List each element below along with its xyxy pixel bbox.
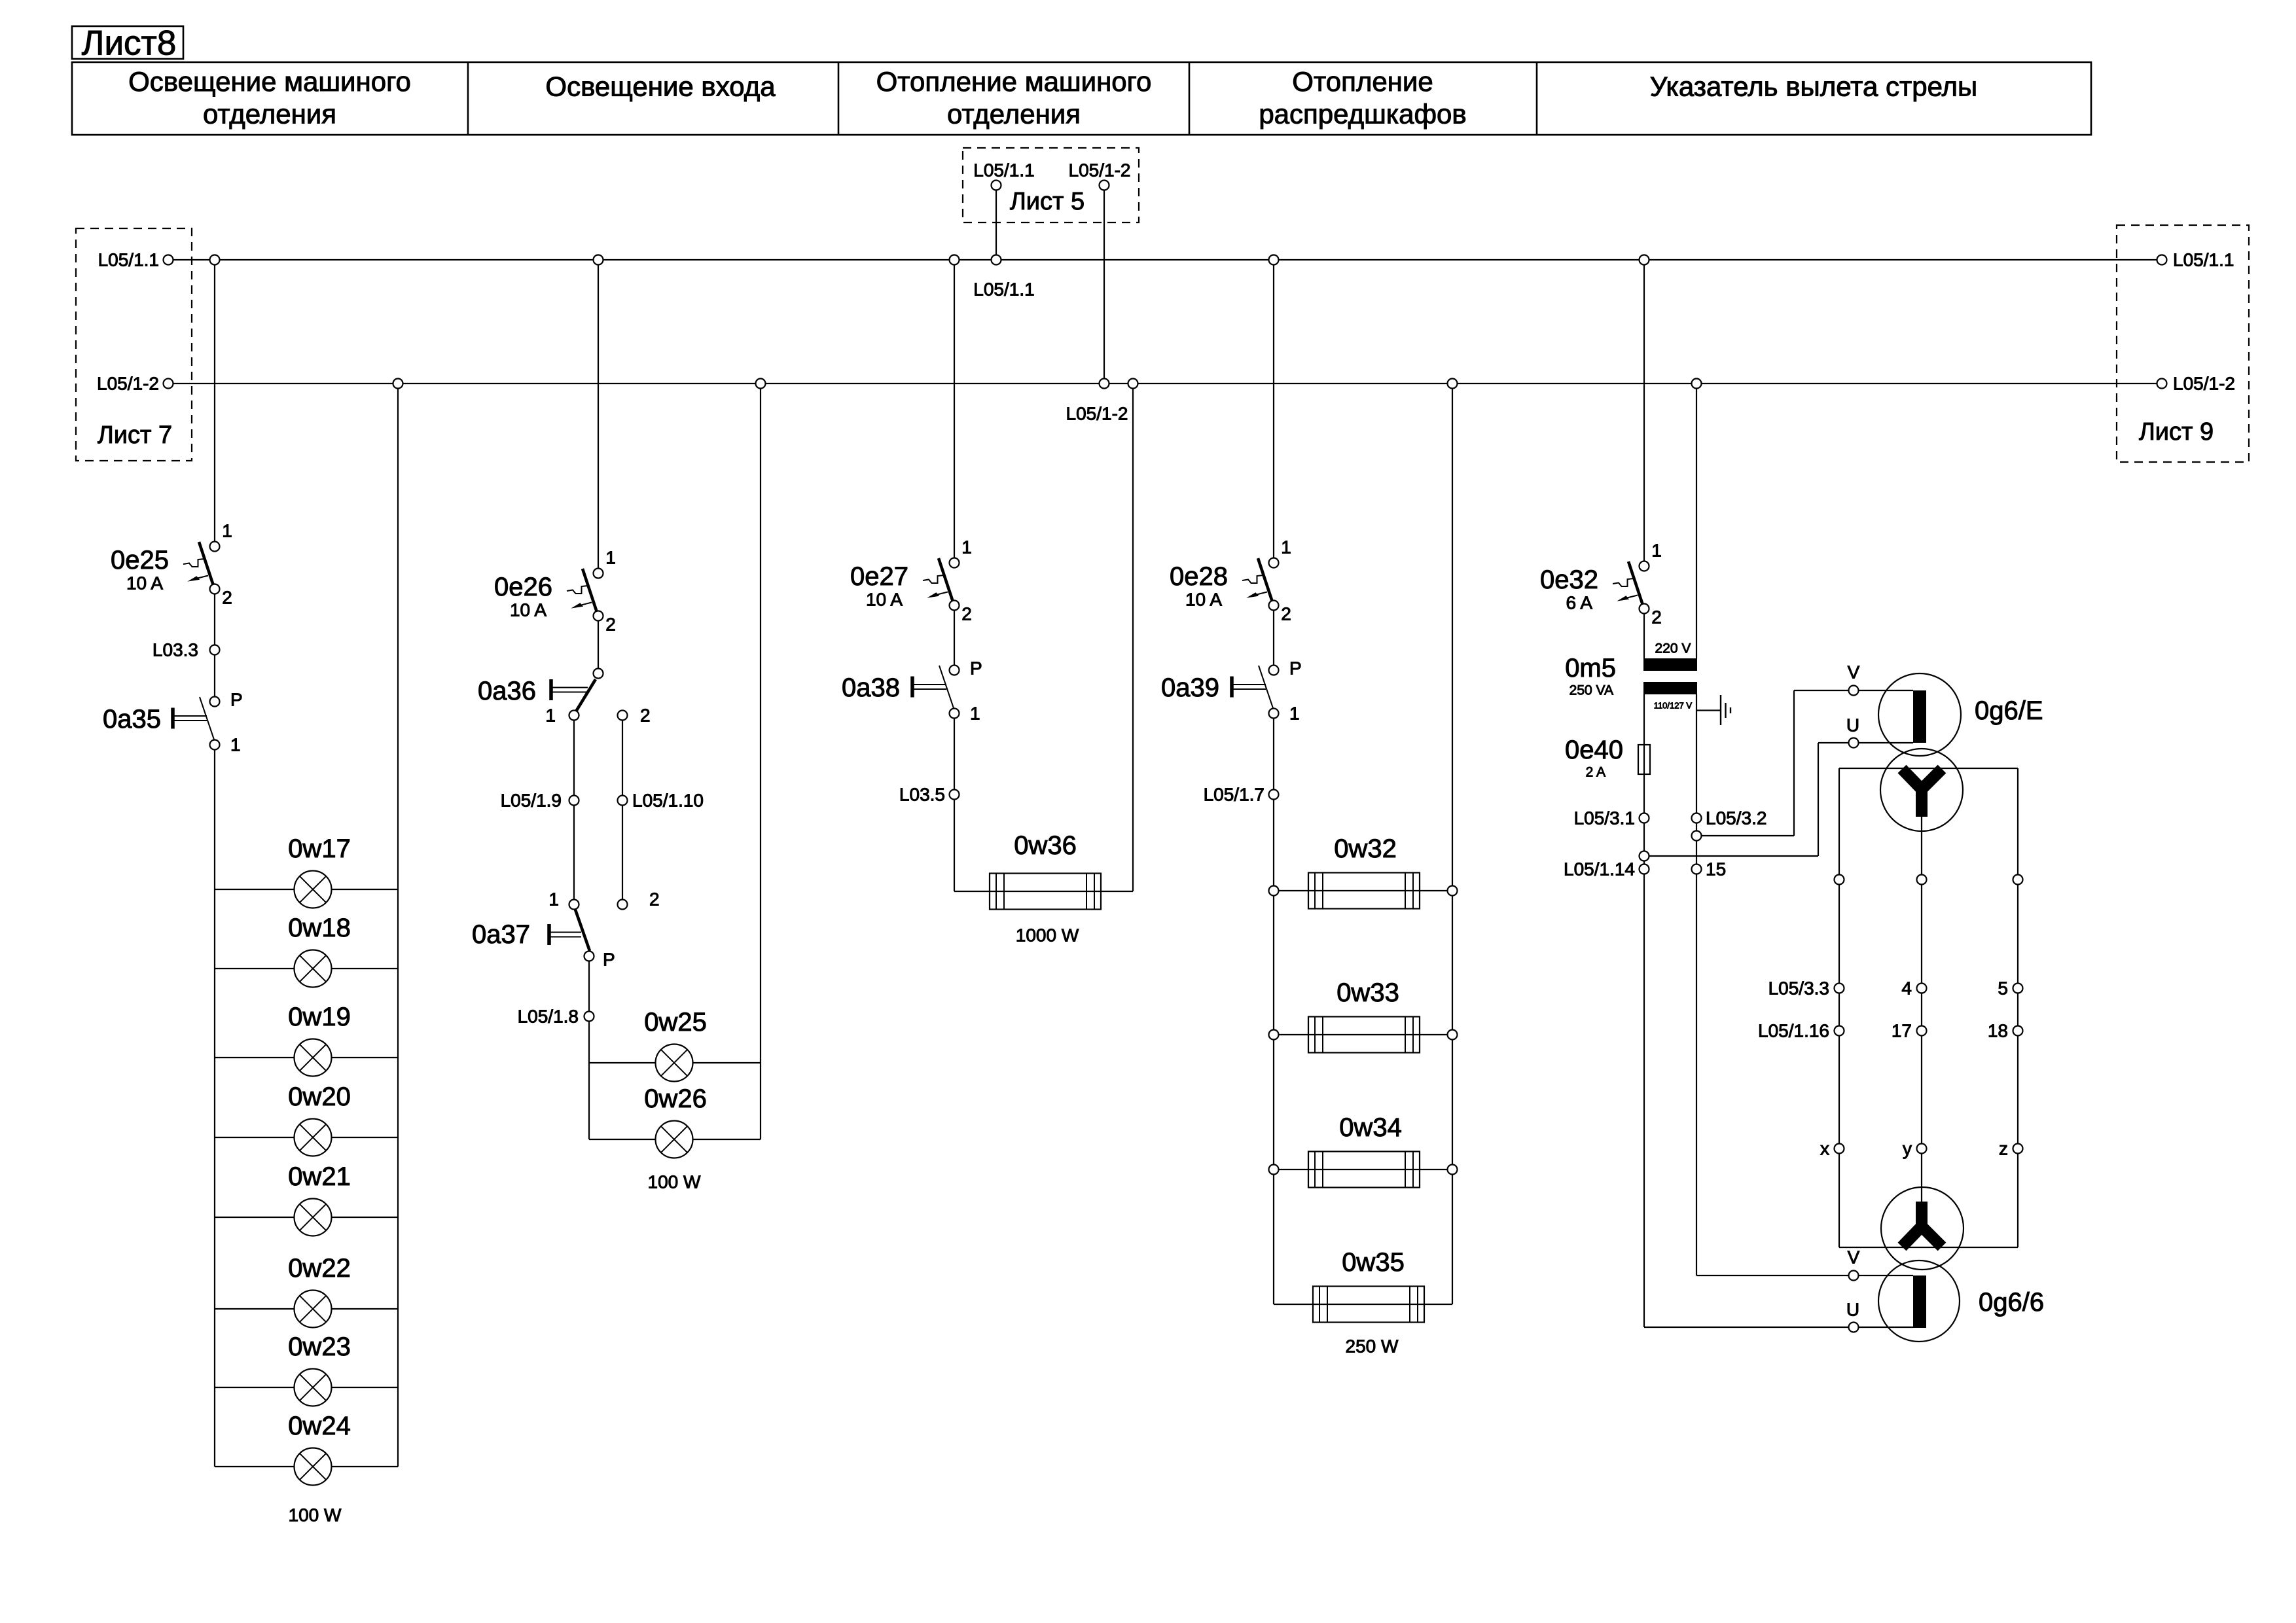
lamp 0w26: [656, 1121, 693, 1158]
wire heater rung 0w32: [1274, 890, 1452, 891]
wire 0e28 pin2 to switch 0a39: [1273, 610, 1274, 666]
junction 0w34 left: [1269, 1165, 1279, 1175]
svg-text:L05/1.7: L05/1.7: [1204, 785, 1265, 805]
svg-text:2: 2: [640, 705, 651, 726]
breaker 0e28 thermal release: [1242, 575, 1263, 583]
svg-text:0g6/6: 0g6/6: [1979, 1288, 2044, 1317]
svg-text:1: 1: [970, 704, 980, 724]
switch 0a39 contact 1: [1269, 709, 1279, 719]
svg-text:0w23: 0w23: [288, 1332, 351, 1361]
svg-text:0w18: 0w18: [288, 914, 351, 942]
wire upper U to selsyn 0g6/E: [1818, 742, 1913, 743]
terminal circles row 1: [1835, 875, 1844, 885]
switch 0a39 manual actuator: [1230, 677, 1234, 698]
switch 0a37 manual actuator: [547, 924, 551, 945]
svg-text:P: P: [603, 950, 615, 970]
wire upper V branch horizontal: [1696, 835, 1794, 836]
node 18: [2013, 1026, 2023, 1036]
svg-text:0w21: 0w21: [288, 1162, 351, 1191]
terminal U of 0g6/6: [1849, 1323, 1859, 1332]
wire 0e26 pin2 to switch 0a36: [598, 620, 599, 669]
svg-text:6 A: 6 A: [1566, 593, 1593, 613]
wire heater rung 0w34: [1274, 1169, 1452, 1170]
svg-text:L05/1.16: L05/1.16: [1758, 1021, 1829, 1041]
wire 0e25 pin2 to node L03.3: [214, 594, 215, 645]
node y: [1917, 1144, 1927, 1154]
svg-text:Отопление машиного: Отопление машиного: [876, 66, 1152, 97]
breaker 0e25 pin 1: [210, 542, 220, 552]
svg-text:1: 1: [1651, 541, 1662, 561]
heater 0w33: [1308, 1017, 1420, 1053]
svg-text:0a35: 0a35: [103, 705, 161, 734]
svg-text:Указатель вылета стрелы: Указатель вылета стрелы: [1650, 71, 1977, 102]
svg-text:0a39: 0a39: [1161, 673, 1219, 702]
bus junction Лист 5 stub on L05/1-2: [1100, 379, 1109, 389]
wire upper U branch vertical: [1818, 743, 1819, 856]
wire lamp rung 0w24: [215, 1466, 398, 1467]
switch 0a36 contact 2: [618, 711, 628, 721]
breaker 0e28 pin 2: [1269, 601, 1279, 611]
svg-text:10 A: 10 A: [866, 590, 903, 610]
svg-text:100 W: 100 W: [289, 1505, 342, 1525]
wire column 2 feeder from bus L05/1.1: [598, 260, 599, 569]
switch 0a38 blade: [939, 666, 954, 708]
switch 0a36 pivot contact: [594, 669, 603, 679]
switch 0a37 contact 1: [569, 900, 579, 910]
transformer 0m5 secondary winding: [1643, 682, 1697, 694]
wire column 3 right rail to bus L05/1-2: [1132, 388, 1134, 891]
node L03.3: [210, 645, 220, 655]
wire 0a37 P to lamp ladder: [588, 961, 590, 1139]
selsyn 0g6/E rotor circle: [1878, 673, 1961, 756]
svg-text:0w24: 0w24: [288, 1412, 351, 1440]
heater 0w36: [990, 874, 1101, 910]
svg-text:0w35: 0w35: [1342, 1248, 1405, 1277]
node x: [1835, 1144, 1844, 1154]
switch 0a35 contact P: [210, 697, 220, 707]
node 5: [2013, 984, 2023, 993]
wire Лист 5 stub to bus L05/1.1: [996, 190, 997, 260]
junction upper U branch: [1640, 851, 1649, 861]
svg-text:2: 2: [961, 604, 972, 624]
Лист 5 terminal L05/1-2: [1100, 181, 1109, 190]
breaker 0e32 thermal release: [1613, 579, 1634, 586]
svg-text:250 W: 250 W: [1346, 1336, 1399, 1357]
wire transformer primary right to bus L05/1-2: [1696, 388, 1697, 658]
svg-text:U: U: [1846, 715, 1859, 736]
svg-text:4: 4: [1901, 978, 1912, 999]
svg-text:U: U: [1846, 1300, 1859, 1320]
wire 0e32 pin2 to transformer primary: [1643, 613, 1645, 658]
svg-text:15: 15: [1706, 859, 1726, 880]
svg-text:0m5: 0m5: [1565, 654, 1616, 683]
bus L05/1-2 right terminal: [2157, 379, 2167, 389]
svg-text:1000 W: 1000 W: [1016, 925, 1079, 946]
switch 0a37 pivot contact P: [584, 952, 594, 961]
svg-text:10 A: 10 A: [1185, 590, 1222, 610]
wire node L03.3 to switch 0a35: [214, 654, 215, 697]
svg-text:100 W: 100 W: [648, 1172, 701, 1192]
wire column 1 ladder right rail from bus L05/1-2: [397, 388, 399, 1467]
svg-text:z: z: [1999, 1139, 2008, 1159]
svg-text:1: 1: [1289, 704, 1300, 724]
lamp 0w18: [295, 950, 332, 988]
svg-text:0w25: 0w25: [644, 1008, 707, 1037]
lamp 0w24: [295, 1448, 332, 1486]
svg-text:17: 17: [1892, 1021, 1912, 1041]
wire U corner to lower selsyn: [1644, 1327, 1913, 1328]
svg-text:1: 1: [1281, 537, 1291, 558]
switch 0a36 contact 1: [569, 711, 579, 721]
svg-text:отделения: отделения: [947, 99, 1081, 130]
svg-text:110/127 V: 110/127 V: [1654, 701, 1693, 711]
bus junction column2 right rail on L05/1-2: [756, 379, 766, 389]
wire secondary to earth: [1696, 709, 1720, 711]
svg-text:V: V: [1848, 1247, 1860, 1268]
terminal U of 0g6/E: [1849, 738, 1859, 748]
svg-text:220 V: 220 V: [1655, 641, 1691, 656]
switch 0a36 manual actuator: [549, 679, 553, 700]
wire 0e27 pin2 to switch 0a38: [954, 610, 955, 666]
switch 0a35 contact 1: [210, 740, 220, 750]
svg-text:0a38: 0a38: [842, 673, 900, 702]
wire heater rung 0w33: [1274, 1034, 1452, 1035]
svg-text:0w22: 0w22: [288, 1254, 351, 1283]
wire upper V to selsyn 0g6/E: [1794, 690, 1913, 691]
svg-text:1: 1: [222, 521, 232, 541]
svg-text:Отопление: Отопление: [1292, 66, 1433, 97]
svg-text:1: 1: [961, 537, 972, 558]
svg-text:0g6/E: 0g6/E: [1975, 696, 2043, 725]
node L05/3.3: [1835, 984, 1844, 993]
wire column 2 ladder right rail from bus L05/1-2: [760, 388, 761, 1139]
breaker 0e32 pin 1: [1640, 562, 1649, 571]
lamp 0w22: [295, 1291, 332, 1328]
svg-text:0e25: 0e25: [111, 546, 169, 575]
wire node L05/1.7 down ladder left rail: [1273, 799, 1274, 1304]
wire lamp rung 0w17: [215, 889, 398, 890]
breaker 0e26 pin 1: [594, 569, 603, 579]
wire node L03.5 down to heater 0w36: [954, 799, 955, 891]
node 17: [1917, 1026, 1927, 1036]
junction 0w32 left: [1269, 886, 1279, 896]
node L05/3.1: [1640, 813, 1649, 823]
svg-text:распредшкафов: распредшкафов: [1259, 99, 1466, 130]
circuit breaker 0e26 blade: [583, 569, 597, 611]
changeover switch 0a36 blade: [576, 679, 596, 711]
svg-text:2 A: 2 A: [1586, 765, 1605, 780]
heater 0w32: [1308, 873, 1420, 909]
svg-text:1: 1: [605, 548, 616, 568]
svg-text:L05/1.9: L05/1.9: [501, 791, 562, 811]
breaker 0e25 trip arrow: [195, 576, 208, 579]
svg-text:0a36: 0a36: [478, 677, 536, 705]
sheet reference box Лист 7: [76, 228, 192, 461]
svg-text:2: 2: [222, 588, 232, 608]
terminal V of 0g6/6: [1849, 1271, 1859, 1281]
wire lamp rung 0w25: [589, 1062, 761, 1063]
wire lamp rung 0w19: [215, 1057, 398, 1058]
circuit breaker 0e28 blade: [1258, 558, 1272, 601]
svg-text:2: 2: [1651, 607, 1662, 628]
svg-text:0w20: 0w20: [288, 1082, 351, 1111]
bus L05/1.1 right terminal: [2157, 255, 2167, 265]
svg-text:L05/1-2: L05/1-2: [2173, 374, 2235, 394]
node z: [2013, 1144, 2023, 1154]
sheet reference box Лист 9: [2117, 225, 2249, 462]
bus wire L05/1-2: [168, 383, 2162, 384]
junction 0w34 right: [1448, 1165, 1458, 1175]
svg-text:x: x: [1820, 1139, 1829, 1159]
breaker 0e32 pin 2: [1640, 604, 1649, 614]
svg-text:0e32: 0e32: [1540, 565, 1598, 594]
node L05/1.16: [1835, 1026, 1844, 1036]
svg-text:0w36: 0w36: [1014, 831, 1077, 860]
svg-text:L05/1.10: L05/1.10: [632, 791, 704, 811]
svg-text:L05/1.1: L05/1.1: [973, 279, 1034, 300]
node 4: [1917, 984, 1927, 993]
bus junction column1 right rail on L05/1-2: [393, 379, 403, 389]
circuit breaker 0e32 blade: [1628, 562, 1643, 604]
lamp 0w25: [656, 1044, 693, 1082]
node L05/1.10: [618, 796, 628, 806]
breaker 0e27 pin 1: [950, 558, 960, 568]
node L05/1.7: [1269, 790, 1279, 800]
svg-text:отделения: отделения: [203, 99, 336, 130]
junction 0w32 right: [1448, 886, 1458, 896]
wire Лист 5 stub to bus L05/1-2: [1103, 190, 1105, 383]
svg-text:0w34: 0w34: [1339, 1113, 1402, 1142]
svg-text:0w33: 0w33: [1336, 978, 1399, 1007]
bus junction column4 right rail on L05/1-2: [1448, 379, 1458, 389]
selsyn 0g6/6 rotor circle: [1878, 1260, 1960, 1342]
svg-text:y: y: [1903, 1139, 1912, 1159]
heater 0w35: [1313, 1287, 1424, 1323]
switch 0a37 contact 2: [618, 900, 628, 910]
selsyn 0g6/6 stator Y winding inverted: [1902, 1226, 1942, 1247]
svg-text:P: P: [970, 658, 982, 679]
wire 0a36 contact1 to 0a37 contact1: [573, 720, 575, 900]
node L05/1.14: [1640, 865, 1649, 874]
svg-text:L05/1-2: L05/1-2: [1069, 160, 1131, 181]
svg-text:L05/1-2: L05/1-2: [1066, 404, 1128, 424]
breaker 0e28 pin 1: [1269, 558, 1279, 568]
sheet reference box Лист 5: [963, 148, 1139, 223]
wire right rail down to V of 0g6/6: [1696, 694, 1697, 1275]
svg-text:Освещение машиного: Освещение машиного: [128, 66, 411, 97]
svg-text:L05/1.1: L05/1.1: [973, 160, 1034, 181]
selsyn 0g6/6 stator circle: [1881, 1187, 1964, 1270]
bus wire L05/1.1: [168, 259, 2162, 260]
fuse 0e40: [1638, 745, 1650, 774]
lamp 0w21: [295, 1199, 332, 1236]
svg-text:Лист 7: Лист 7: [98, 421, 172, 449]
lamp 0w20: [295, 1119, 332, 1156]
wire 0a39 to node L05/1.7: [1273, 718, 1274, 790]
node L05/3.2: [1692, 813, 1702, 823]
svg-text:L05/1-2: L05/1-2: [97, 374, 159, 394]
wire column 3 feeder from bus L05/1.1: [954, 260, 955, 558]
wire lower stator bottom bar: [1839, 1247, 2018, 1248]
lamp 0w19: [295, 1039, 332, 1077]
earth symbol: [1720, 695, 1721, 725]
svg-text:5: 5: [1998, 978, 2008, 999]
wire V corner to lower selsyn: [1696, 1275, 1913, 1276]
svg-text:0w26: 0w26: [644, 1084, 707, 1113]
svg-text:V: V: [1848, 662, 1860, 683]
switch 0a35 blade: [200, 697, 214, 740]
wire stator middle lead down: [1921, 817, 1922, 1207]
bus junction column2 on L05/1.1: [594, 255, 603, 265]
node L05/1.8: [584, 1012, 594, 1022]
svg-text:2: 2: [605, 615, 616, 635]
lamp 0w17: [295, 871, 332, 908]
bus junction column3 on L05/1.1: [950, 255, 960, 265]
wire secondary left down to fuse 0e40: [1643, 694, 1645, 774]
bus L05/1-2 left terminal: [164, 379, 173, 389]
switch 0a38 contact 1: [950, 709, 960, 719]
wire stator left lead down: [1839, 768, 1840, 1247]
svg-text:2: 2: [649, 889, 660, 910]
heater 0w34: [1308, 1152, 1420, 1188]
svg-text:0w19: 0w19: [288, 1003, 351, 1031]
transformer 0m5 primary winding: [1643, 658, 1697, 671]
breaker 0e27 trip arrow: [935, 592, 948, 596]
wire heater rung 0w35: [1274, 1304, 1452, 1305]
bus junction column4 on L05/1.1: [1269, 255, 1279, 265]
wire 0a36 contact2 to 0a37 contact2: [622, 720, 623, 900]
circuit breaker 0e25 blade: [199, 542, 213, 584]
selsyn 0g6/E rotor bar: [1913, 690, 1926, 743]
svg-text:0e40: 0e40: [1565, 736, 1623, 764]
breaker 0e26 trip arrow: [579, 603, 592, 606]
svg-text:0a37: 0a37: [472, 920, 530, 949]
switch 0a39 contact P: [1269, 666, 1279, 675]
svg-text:10 A: 10 A: [510, 600, 547, 620]
svg-text:L03.3: L03.3: [152, 640, 198, 660]
wire column 1 feeder from bus L05/1.1: [214, 260, 215, 542]
svg-text:10 A: 10 A: [126, 573, 163, 594]
wire column 4 feeder from bus L05/1.1: [1273, 260, 1274, 558]
wire fuse down left rail to U of 0g6/6: [1643, 774, 1645, 1327]
switch 0a35 manual actuator: [171, 708, 175, 729]
svg-text:L05/3.1: L05/3.1: [1574, 808, 1635, 829]
wire lamp rung 0w22: [215, 1308, 398, 1310]
wire upper U branch horizontal: [1644, 855, 1818, 857]
breaker 0e26 thermal release: [567, 586, 588, 594]
svg-text:L05/1.1: L05/1.1: [2173, 250, 2234, 270]
bus junction column5 on L05/1.1: [1640, 255, 1649, 265]
junction upper V branch: [1692, 831, 1702, 841]
node 15: [1692, 865, 1702, 874]
bus junction column5 right rail on L05/1-2: [1692, 379, 1702, 389]
svg-text:0e27: 0e27: [850, 562, 908, 591]
svg-text:1: 1: [545, 705, 556, 726]
wire lamp rung 0w21: [215, 1217, 398, 1218]
wire column 4 ladder right rail from bus L05/1-2: [1452, 388, 1453, 1304]
breaker 0e25 thermal release: [183, 559, 204, 567]
node L03.5: [950, 790, 960, 800]
svg-text:L05/1.1: L05/1.1: [98, 250, 159, 270]
svg-text:Освещение входа: Освещение входа: [545, 71, 776, 102]
svg-text:L05/3.3: L05/3.3: [1768, 978, 1829, 999]
svg-text:2: 2: [1281, 604, 1291, 624]
wire selsyn stator bus bar: [1839, 768, 2018, 769]
wire 0a35 to lamp ladder: [214, 749, 215, 1467]
sheet title box Лист8: [72, 26, 183, 59]
bus junction column1 on L05/1.1: [210, 255, 220, 265]
svg-text:P: P: [1289, 658, 1302, 679]
svg-text:Лист8: Лист8: [82, 24, 177, 63]
wire 0a38 to node L03.5: [954, 718, 955, 790]
svg-text:0e28: 0e28: [1170, 562, 1228, 591]
breaker 0e28 trip arrow: [1254, 592, 1267, 596]
svg-text:L03.5: L03.5: [899, 785, 945, 805]
wire stator right lead down: [2017, 768, 2018, 1247]
node L05/1.9: [569, 796, 579, 806]
Лист 5 terminal L05/1.1: [992, 181, 1001, 190]
changeover switch 0a37 blade: [575, 910, 590, 951]
switch 0a38 manual actuator: [910, 677, 914, 698]
breaker 0e27 thermal release: [923, 575, 944, 583]
selsyn 0g6/E stator Y winding: [1902, 769, 1942, 789]
circuit breaker 0e27 blade: [939, 558, 953, 601]
switch 0a39 blade: [1259, 666, 1273, 708]
svg-text:P: P: [230, 690, 243, 710]
svg-text:Лист 9: Лист 9: [2139, 418, 2214, 446]
svg-text:0w17: 0w17: [288, 834, 351, 863]
wire lamp rung 0w18: [215, 968, 398, 969]
bus junction column3 right rail on L05/1-2: [1128, 379, 1138, 389]
svg-text:18: 18: [1988, 1021, 2008, 1041]
junction 0w33 right: [1448, 1030, 1458, 1040]
bus junction Лист 5 stub on L05/1.1: [992, 255, 1001, 265]
lamp 0w23: [295, 1369, 332, 1406]
svg-text:L05/3.2: L05/3.2: [1706, 808, 1767, 829]
junction 0w33 left: [1269, 1030, 1279, 1040]
svg-text:250 VA: 250 VA: [1570, 683, 1613, 698]
breaker 0e27 pin 2: [950, 601, 960, 611]
breaker 0e25 pin 2: [210, 584, 220, 594]
wire upper V branch vertical: [1793, 690, 1795, 836]
svg-text:1: 1: [230, 735, 241, 755]
wire lamp rung 0w20: [215, 1137, 398, 1138]
svg-text:0w32: 0w32: [1334, 834, 1397, 863]
wire lamp rung 0w26: [589, 1139, 761, 1140]
svg-text:0e26: 0e26: [494, 573, 552, 601]
selsyn 0g6/6 rotor bar: [1913, 1275, 1926, 1328]
svg-text:Лист 5: Лист 5: [1010, 188, 1085, 215]
svg-text:1: 1: [548, 889, 559, 910]
wire column 5 feeder from bus L05/1.1: [1643, 260, 1645, 562]
header table frame: [72, 62, 2091, 135]
selsyn 0g6/E stator circle: [1880, 749, 1963, 831]
bus L05/1.1 left terminal: [164, 255, 173, 265]
breaker 0e32 trip arrow: [1624, 596, 1638, 599]
switch 0a38 contact P: [950, 666, 960, 675]
wire heater 0w36 rung: [954, 891, 1133, 892]
breaker 0e26 pin 2: [594, 611, 603, 621]
wire lamp rung 0w23: [215, 1387, 398, 1388]
svg-text:L05/1.14: L05/1.14: [1564, 859, 1635, 880]
svg-text:L05/1.8: L05/1.8: [518, 1007, 579, 1027]
terminal V of 0g6/E: [1849, 686, 1859, 696]
